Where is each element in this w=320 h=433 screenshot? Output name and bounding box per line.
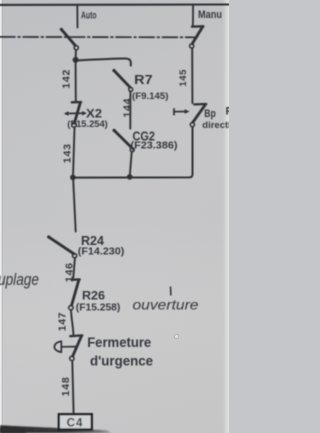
svg-text:Manu: Manu [198, 9, 222, 21]
svg-text:144: 144 [122, 98, 134, 118]
svg-text:Bp: Bp [204, 108, 216, 120]
svg-text:148: 148 [60, 376, 72, 396]
svg-text:147: 147 [57, 312, 69, 331]
svg-text:R7: R7 [134, 73, 153, 87]
svg-text:143: 143 [62, 143, 74, 163]
svg-text:(F15.254): (F15.254) [67, 119, 108, 129]
svg-text:C4: C4 [67, 418, 84, 430]
svg-text:d'urgence: d'urgence [90, 353, 153, 369]
svg-text:(F9.145): (F9.145) [132, 91, 169, 101]
svg-text:(F15.258): (F15.258) [76, 303, 121, 314]
svg-text:Auto: Auto [81, 10, 97, 22]
svg-text:145: 145 [178, 69, 189, 87]
svg-text:direction: direction [202, 120, 229, 131]
svg-text:(F14.230): (F14.230) [78, 247, 125, 258]
svg-text:R26: R26 [82, 288, 105, 302]
svg-text:F: F [226, 106, 230, 118]
svg-text:146: 146 [64, 262, 76, 282]
svg-text:142: 142 [61, 69, 73, 89]
svg-text:uplage: uplage [0, 270, 39, 289]
svg-text:ouverture: ouverture [133, 298, 199, 313]
svg-text:Fermeture: Fermeture [87, 334, 151, 350]
svg-text:(F23.386): (F23.386) [131, 140, 178, 151]
